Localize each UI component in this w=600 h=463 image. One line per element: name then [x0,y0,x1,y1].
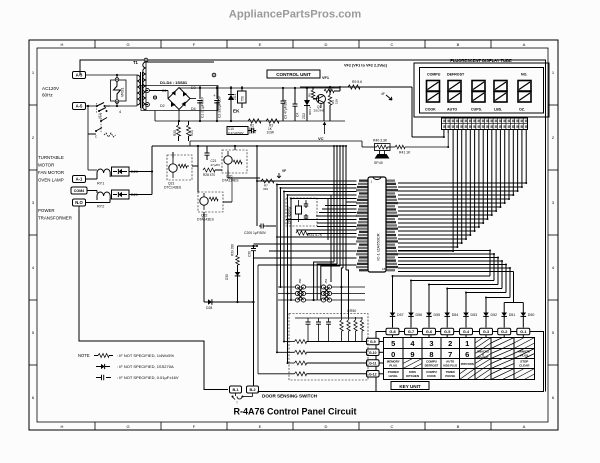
wire vertical feed x257 [256,145,258,226]
svg-text:(S1): (S1) [98,113,102,119]
svg-text:: IF NOT SPECIFIED, 1/4W±5%: : IF NOT SPECIFIED, 1/4W±5% [117,353,174,358]
svg-text:1/2W: 1/2W [267,131,274,135]
transistor Q20 DTA114ES [222,150,247,183]
svg-text:C30: C30 [248,251,252,257]
svg-text:DTC143ES: DTC143ES [164,186,182,190]
svg-text:VC: VC [318,136,324,141]
wire relay ground loop to B-1 [79,206,228,390]
wire B-2 riser [252,301,254,386]
svg-text:7: 7 [448,350,452,359]
svg-text:D51: D51 [509,313,516,317]
connectors G-9 to G-12 [367,338,380,377]
resistor R2 680 1/2W [248,119,261,135]
svg-text:D56: D56 [416,313,423,317]
svg-text:TRANSFORMER: TRANSFORMER [38,216,72,221]
transformer T1 [133,58,148,110]
svg-text:LBS.: LBS. [494,108,502,112]
svg-text:G-10: G-10 [369,351,377,355]
resistor R7 330 [261,169,286,191]
svg-text:R9 5.6: R9 5.6 [352,80,362,84]
transistor Q1 2SC945 [313,95,326,113]
varistor VRS1 [111,75,127,106]
wire switch to VRS1 [110,105,137,114]
svg-text:J50: J50 [298,278,302,283]
connector A-1 [73,176,86,183]
transistor Q21 DTC143ES [164,155,192,190]
svg-text:C200 1μF/50V: C200 1μF/50V [244,231,267,235]
svg-text:D50: D50 [528,313,535,317]
svg-text:COM4: COM4 [74,189,84,193]
display pin header [442,118,528,130]
capacitor C1 0.1uF/50V [197,86,204,121]
svg-text:+: + [213,93,216,98]
svg-text:3: 3 [429,339,433,348]
svg-text:6: 6 [465,350,469,359]
wire relay returns [129,141,190,195]
svg-text:NOTE: NOTE [78,353,90,358]
resistor R21 22K [187,121,195,141]
svg-text:AC120V: AC120V [42,86,60,91]
svg-text:RY1: RY1 [97,182,104,186]
wire vertical bus center [328,145,347,282]
svg-text:60Hz: 60Hz [42,93,53,98]
svg-text:B-1: B-1 [232,388,238,392]
capacitor C10 0.47uF/50V [227,127,256,135]
IC pin labels right [387,180,399,272]
zener diode ZD EK [228,86,240,121]
svg-text:D2: D2 [160,104,165,108]
wire G row connections [307,342,384,374]
wire lower rail [190,140,362,142]
wire driver connections [173,146,260,225]
wire C200 node [238,245,259,247]
svg-text:1/2W: 1/2W [249,131,256,135]
svg-text:B: B [457,424,460,429]
IC pin labels left [356,180,368,272]
svg-text:R6: R6 [308,93,312,97]
resistor R20 47K [173,121,181,141]
svg-text:G-11: G-11 [369,362,376,366]
svg-text:G-5: G-5 [444,330,450,334]
switch S1 door interlock [96,103,110,120]
svg-text:G-7: G-7 [408,330,414,334]
svg-text:R40 3.3K: R40 3.3K [373,139,388,143]
svg-text:MOTOR: MOTOR [38,163,54,168]
svg-text:2SC945: 2SC945 [314,109,325,113]
svg-text:D52: D52 [491,313,498,317]
svg-text:D55: D55 [434,313,441,317]
svg-text:1: 1 [465,339,469,348]
diode D20 [112,167,138,176]
resistor R1 750 [238,86,247,108]
wire IC left input bus [254,181,357,265]
wire bundle bends to jumper rows [314,262,349,317]
svg-text:G-8: G-8 [389,330,395,334]
connector B-1 [230,386,242,393]
svg-text:18: 18 [382,267,386,271]
svg-text:4F: 4F [381,92,385,96]
capacitor network CR50 [289,309,368,380]
svg-text:D: D [325,42,328,47]
svg-text:G-4: G-4 [463,330,470,334]
wire G row left risers [258,265,295,374]
diode bridge D1-D4 1SS81 [149,80,196,121]
svg-text:G-6: G-6 [426,330,432,334]
wire A-5 to switch [86,105,97,107]
wire ground rail mid [155,111,345,123]
resistor R8 1K [324,86,334,93]
svg-text:8: 8 [429,350,433,359]
relay RY1 contact [97,169,110,186]
terminal block secondary [141,62,218,111]
diodes D57-D50 key matrix [390,310,535,328]
svg-text:A-1: A-1 [76,177,83,182]
svg-text:C: C [391,42,394,47]
svg-text:330: 330 [263,187,268,191]
svg-text:DTA114ES: DTA114ES [222,179,239,183]
wire +V rail [179,87,340,89]
svg-text:E: E [259,42,262,47]
wire top rail VF2 [80,60,546,392]
svg-text:RD6.2: RD6.2 [308,106,312,115]
wire A-5 branch down to relays [87,105,97,170]
connector B-2 [247,386,259,393]
resistor R31 4.7K [296,231,323,237]
svg-text:G-1: G-1 [520,330,526,334]
svg-text:DOOR SENSING SWITCH: DOOR SENSING SWITCH [262,394,318,399]
wire riser rows [280,286,293,301]
svg-text:DEFROST: DEFROST [425,364,439,368]
svg-text:R-4A76 Control Panel Circuit: R-4A76 Control Panel Circuit [233,407,356,417]
resistor R9 5.6 [348,80,392,100]
wire VF1 filament to display pin 1 [412,87,445,138]
node AC120V 60Hz [42,86,60,98]
svg-text:J51: J51 [324,278,328,283]
capacitor C21 47uF/6V [205,146,221,167]
connector N.O [73,199,86,206]
svg-text:H: H [61,424,64,429]
svg-text:OVEN LAMP: OVEN LAMP [38,178,64,183]
wire display bus staircase [398,130,527,253]
svg-text:POPCORN: POPCORN [461,362,474,366]
svg-text:AppliancePartsPros.com: AppliancePartsPros.com [229,9,361,21]
wire COM4 to RY2 [87,191,97,194]
svg-text:D30: D30 [225,274,229,280]
transistor Q22 DTA143ES [197,192,223,222]
svg-text:5: 5 [391,339,395,348]
svg-text:VRS1: VRS1 [121,88,125,97]
svg-text:: IF NOT SPECIFIED, 1SS270A: : IF NOT SPECIFIED, 1SS270A [117,364,174,369]
svg-text:R39 330: R39 330 [231,244,235,256]
wire left bundle to key rows [276,184,292,364]
wire buzzer feed [362,133,449,148]
node CONTROL UNIT [267,70,320,78]
title R-4A76 Control Panel Circuit [233,400,356,417]
resistor R6 1K [308,87,315,99]
svg-text:R20: R20 [173,130,177,136]
svg-text:750: 750 [241,96,245,102]
resistor array G rows [295,340,307,376]
svg-text:CONTROL UNIT: CONTROL UNIT [276,72,311,77]
wire N.O to RY2 [86,199,111,203]
svg-text:G-12: G-12 [369,372,377,376]
svg-text:C4: C4 [296,113,300,117]
resistor dashed monitor [101,128,116,137]
svg-text:VF1: VF1 [322,76,329,80]
svg-text:D54: D54 [452,313,459,317]
svg-text:H: H [61,42,64,47]
oscillator CF1 400KW [286,198,317,226]
svg-text:RY2: RY2 [97,205,104,209]
svg-text:C2 330μF/25V: C2 330μF/25V [218,95,222,118]
svg-text:EK: EK [233,109,240,114]
svg-text:D: D [325,424,328,429]
svg-text:IC-1 IZA650CR: IC-1 IZA650CR [376,233,381,260]
svg-text:R28 470: R28 470 [203,173,215,177]
node POWER TRANSFORMER [38,208,72,221]
wire A-1 to RY1 [86,176,98,179]
zener diode ZD2 RD6.2M [302,88,312,121]
diode D21 [112,190,138,199]
node KEY UNIT box [376,332,544,392]
wire control unit internals [282,86,340,121]
svg-text:PLUS: PLUS [389,364,397,368]
display fluorescent display tube [414,58,549,117]
svg-text:COMPU: COMPU [427,73,441,77]
svg-text:PLUS: PLUS [520,354,528,358]
svg-text:9: 9 [410,350,414,359]
wire A-3 to T1 [86,74,138,76]
capacitor C4 [293,88,300,121]
capacitor C200 1uF/50V [244,224,276,236]
jumper links J50 J51 [278,278,365,302]
svg-text:AUTO: AUTO [447,108,457,112]
svg-text:KIDS PLUS: KIDS PLUS [443,364,457,368]
svg-text:0: 0 [391,350,395,359]
buzzer SP.40 [374,151,390,166]
svg-text:T1: T1 [133,60,139,65]
svg-text:G: G [126,424,129,429]
svg-text:E: E [259,424,262,429]
svg-text:OZ.: OZ. [519,108,525,112]
switch S2 monitor contact [95,113,107,139]
svg-text:D4: D4 [191,107,196,111]
svg-text:KITCHEN: KITCHEN [406,374,419,378]
connector A-3 [73,72,86,79]
svg-text:R41 1K: R41 1K [399,151,411,155]
svg-text:c: c [95,135,97,139]
IC U1 IC-1 IZA650CR [368,177,386,272]
capacitor C3 47uF/25V [281,88,288,121]
wire B-2 to key unit [253,392,377,394]
svg-text:D28: D28 [206,306,212,310]
switch door sensing [232,393,253,400]
capacitor C2 330uF/25V [213,86,222,121]
svg-text:A-5: A-5 [76,104,83,109]
svg-text:ZD2: ZD2 [302,113,306,119]
svg-text:COOK: COOK [425,108,436,112]
svg-text:VF: VF [282,169,286,173]
svg-text:C3 47μF/25V: C3 47μF/25V [284,99,288,119]
note block [78,353,179,380]
capacitor C30 [248,246,257,302]
svg-text:CLEAR: CLEAR [519,364,530,368]
node VC [318,104,326,142]
svg-text:C: C [391,424,394,429]
svg-text:NO.: NO. [521,73,527,77]
svg-text:G-9: G-9 [370,340,376,344]
connector A-5 [73,103,86,110]
svg-text:C1 0.1μF/50V: C1 0.1μF/50V [201,96,205,118]
svg-text:: IF NOT SPECIFIED, 0.01μF±16: : IF NOT SPECIFIED, 0.01μF±16V [117,375,179,380]
svg-text:4: 4 [119,110,121,114]
svg-text:CUPS.: CUPS. [471,108,482,112]
resistor R41 1K [395,145,411,154]
resistor R28 470 [203,168,215,177]
svg-text:47μ/6V: 47μ/6V [211,163,221,167]
svg-text:REHEAT: REHEAT [477,356,489,360]
svg-text:R21: R21 [190,130,194,136]
svg-text:SP.40: SP.40 [374,161,383,165]
svg-text:A-3: A-3 [76,73,83,78]
svg-text:2: 2 [448,339,452,348]
svg-text:POWER: POWER [38,208,55,213]
svg-text:B: B [457,42,460,47]
wire rail VCC relays [190,145,345,147]
diode D28 [204,212,254,310]
svg-text:KEY UNIT: KEY UNIT [399,384,421,389]
resistor R39 330 [231,244,240,272]
diode D30 [225,272,240,303]
svg-text:N.O: N.O [75,200,83,205]
svg-text:A: A [523,424,526,429]
svg-text:ZD1: ZD1 [233,94,237,100]
resistor R4 15K [328,95,338,105]
resistor R3 1K 1/2W [266,119,279,135]
svg-text:D53: D53 [471,313,478,317]
svg-text:G: G [126,42,129,47]
relay RY2 contact [97,192,110,209]
svg-text:DTA143ES: DTA143ES [197,218,214,222]
svg-text:0.47μF/50V: 0.47μF/50V [228,131,244,135]
svg-text:AUTO: AUTO [446,360,455,364]
svg-text:G-3: G-3 [483,330,489,334]
svg-text:TURNTABLE: TURNTABLE [38,155,64,160]
connectors G-8 to G-1 [386,328,530,337]
svg-text:D1-D4 : 1SS81: D1-D4 : 1SS81 [160,80,188,85]
svg-text:PAUSE: PAUSE [445,374,455,378]
key matrix table [384,338,535,380]
resistor R40 3.3K [373,139,390,151]
node VF1 label [300,76,412,87]
connector COM4 [71,187,87,194]
svg-text:FLUORESCENT DISPLAY TUBE: FLUORESCENT DISPLAY TUBE [450,58,512,63]
display digits [427,81,532,103]
svg-text:COOK: COOK [427,374,437,378]
svg-text:G-2: G-2 [501,330,507,334]
svg-text:A: A [523,42,526,47]
svg-text:D57: D57 [397,313,404,317]
svg-text:LEVEL: LEVEL [389,374,399,378]
svg-text:VF2 (VF1 to VF2 2.2Vac): VF2 (VF1 to VF2 2.2Vac) [344,64,388,68]
node VF2 label [344,64,388,68]
svg-text:15K: 15K [335,99,339,104]
svg-text:↑: ↑ [236,400,239,406]
node TURNTABLE MOTOR FAN MOTOR OVEN LAMP [38,155,64,183]
svg-text:DEFROST: DEFROST [447,73,465,77]
svg-text:FAN MOTOR: FAN MOTOR [38,170,64,175]
wire key column feeds [392,250,524,311]
